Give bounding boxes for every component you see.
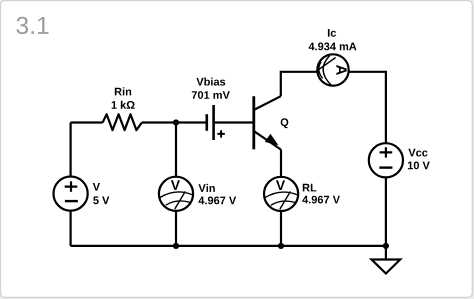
voltmeter RL circle (264, 177, 298, 211)
ground stem (385, 246, 387, 260)
node: junction dot resistor/Vin (173, 119, 179, 125)
value 701 mV (192, 91, 230, 99)
voltage source Vcc circle (369, 143, 403, 177)
resistor Rin (103, 114, 142, 130)
transistor Q collector lead (254, 96, 281, 110)
battery Vbias positive plate (212, 105, 215, 140)
voltmeter RL needle (280, 192, 291, 210)
wire: battery to base (215, 121, 253, 123)
wire: left vertical bottom (69, 211, 71, 246)
voltmeter Vin gauge arcs (160, 192, 193, 205)
Vcc plus sign (380, 147, 393, 157)
voltmeter Vin needle (175, 191, 186, 209)
ammeter Ic circle (317, 54, 348, 85)
label Vbias (196, 78, 225, 86)
label RL (303, 184, 317, 192)
battery Vbias negative plate (206, 114, 209, 131)
wire: ammeter to Vcc corner (349, 72, 386, 144)
label Vcc (408, 149, 427, 157)
Vcc minus sign (379, 166, 392, 168)
ammeter letter A (336, 65, 346, 75)
label Vin (199, 184, 215, 192)
ground symbol (372, 260, 401, 274)
value Vin 4.967 V (199, 197, 237, 205)
voltmeter Vin circle (159, 177, 193, 211)
scope label 3.1 (16, 17, 48, 34)
V source minus sign (65, 200, 78, 202)
label Ic (328, 29, 336, 37)
label V (93, 183, 100, 191)
wire: Vin meter to bottom rail (175, 211, 177, 246)
wire: resistor to battery (142, 121, 206, 123)
transistor Q base bar (252, 96, 255, 149)
voltmeter RL gauge arcs (265, 192, 298, 205)
wire: left vertical top (69, 123, 71, 177)
label Q (281, 118, 289, 128)
wire: RL meter to bottom rail (280, 211, 282, 246)
voltmeter Vin letter V (171, 180, 180, 190)
voltmeter RL letter V (276, 180, 285, 190)
wire: junction down to Vin meter (175, 123, 177, 177)
node: dot RL bottom (278, 243, 284, 249)
battery plus mark (217, 130, 224, 137)
value 5 V (93, 197, 109, 205)
transistor Q emitter arrow (266, 135, 278, 145)
wire: source top to resistor (71, 121, 103, 123)
node: dot ground (383, 243, 389, 249)
transistor Q emitter lead (254, 131, 281, 150)
voltage source V circle (54, 177, 88, 211)
value RL 4.967 V (302, 196, 340, 204)
value 4.934 mA (309, 43, 357, 51)
V source plus sign (65, 181, 78, 191)
label Rin (115, 87, 131, 95)
wire: emitter down to RL meter (280, 150, 282, 177)
value 10 V (408, 162, 430, 170)
wire: collector up to ammeter (281, 72, 318, 96)
ammeter gauge arcs (319, 56, 331, 85)
value 1 kOhm (112, 101, 135, 109)
wire: bottom rail (71, 245, 386, 247)
ammeter needle (316, 58, 335, 72)
wire: Vcc to ground node (385, 177, 387, 246)
node: dot Vin bottom (173, 243, 179, 249)
